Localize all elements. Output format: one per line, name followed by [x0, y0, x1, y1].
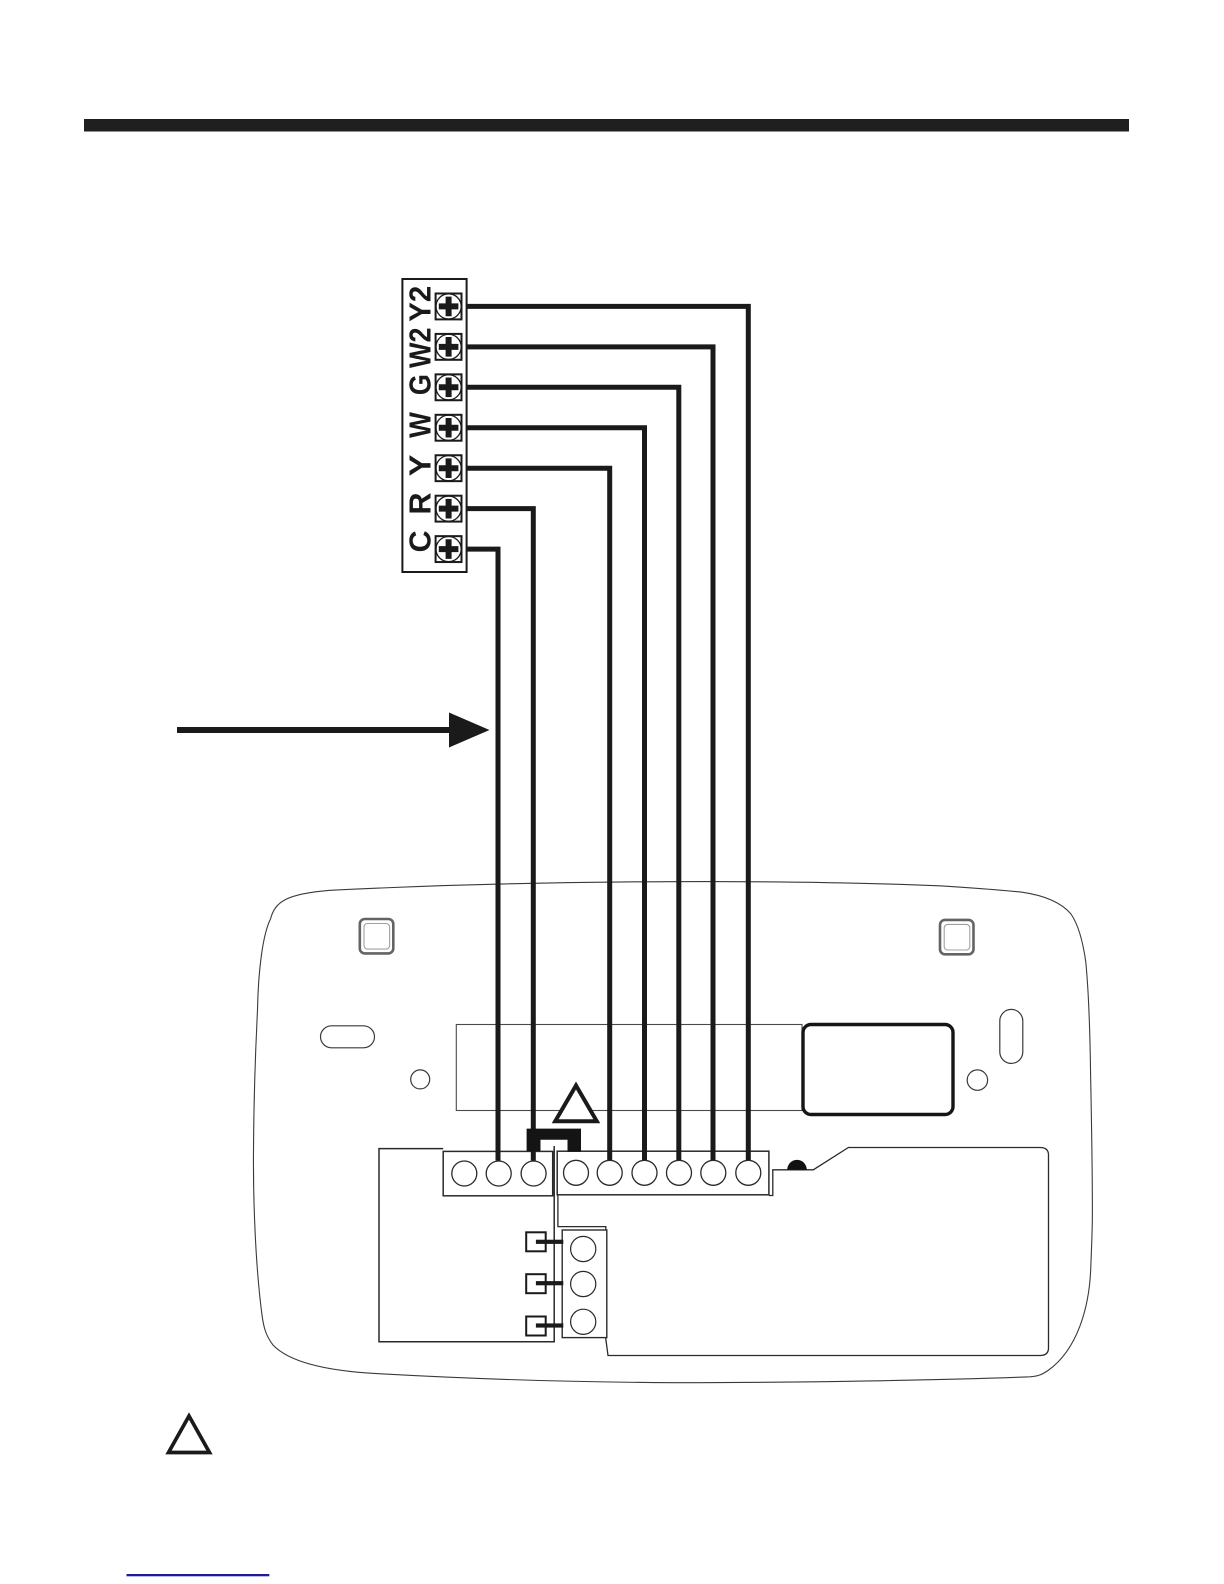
- svg-text:Y2: Y2: [403, 286, 438, 322]
- svg-text:C: C: [403, 530, 438, 552]
- warning triangle callout 1: [555, 1086, 597, 1122]
- left terminal strip: [443, 1151, 553, 1195]
- svg-text:G: G: [403, 374, 438, 395]
- wire Y2: [460, 306, 748, 1160]
- alignment bump (black half-circle): [787, 1160, 807, 1170]
- wire clamp (black bracket): [527, 1129, 581, 1152]
- top rule bar: [84, 119, 1129, 132]
- warning triangle callout 2 (footnote): [169, 1416, 210, 1453]
- wire G: [460, 387, 679, 1160]
- connector pin lead 1: [536, 1240, 563, 1244]
- svg-text:W2: W2: [403, 327, 438, 368]
- furnace terminal block: [402, 279, 466, 572]
- svg-text:Y: Y: [403, 454, 438, 476]
- connector pin lead 2: [536, 1281, 563, 1285]
- connector pin square 2: [526, 1274, 546, 1293]
- wall-anchor slot left (horizontal pill): [321, 1026, 375, 1048]
- screw hole right: [967, 1070, 987, 1090]
- terminal Y: [436, 455, 462, 481]
- mounting hole left (gray rounded square): [360, 919, 394, 953]
- wire W: [460, 428, 645, 1160]
- connector pin square 1: [526, 1232, 546, 1251]
- connector pin square 3: [526, 1317, 546, 1336]
- wire R: [460, 509, 533, 1161]
- footer link rule (blue): [127, 1574, 270, 1576]
- left module block: [379, 1146, 554, 1342]
- terminal G: [436, 374, 462, 400]
- svg-text:R: R: [403, 493, 438, 515]
- wall-anchor slot right (vertical pill): [1000, 1009, 1023, 1063]
- lower connector block: [562, 1230, 607, 1338]
- screw hole left: [411, 1070, 430, 1089]
- mounting hole right (gray rounded square): [940, 920, 974, 954]
- battery compartment (bold rounded rect): [803, 1025, 953, 1115]
- wire W2: [460, 347, 713, 1160]
- wire C: [460, 549, 498, 1160]
- wire Y: [460, 468, 610, 1160]
- right terminal strip: [557, 1151, 769, 1195]
- terminal C: [436, 536, 462, 562]
- terminal W2: [436, 334, 462, 360]
- connector pin lead 3: [536, 1323, 563, 1327]
- terminal W: [436, 415, 462, 441]
- svg-text:W: W: [403, 411, 438, 437]
- wiring channel band: [456, 1025, 802, 1111]
- right module block outline: [558, 1148, 1049, 1356]
- thermostat backplate outline: [253, 882, 1092, 1383]
- terminal Y2: [436, 294, 462, 320]
- pointer arrow: [177, 713, 490, 748]
- terminal R: [436, 496, 462, 522]
